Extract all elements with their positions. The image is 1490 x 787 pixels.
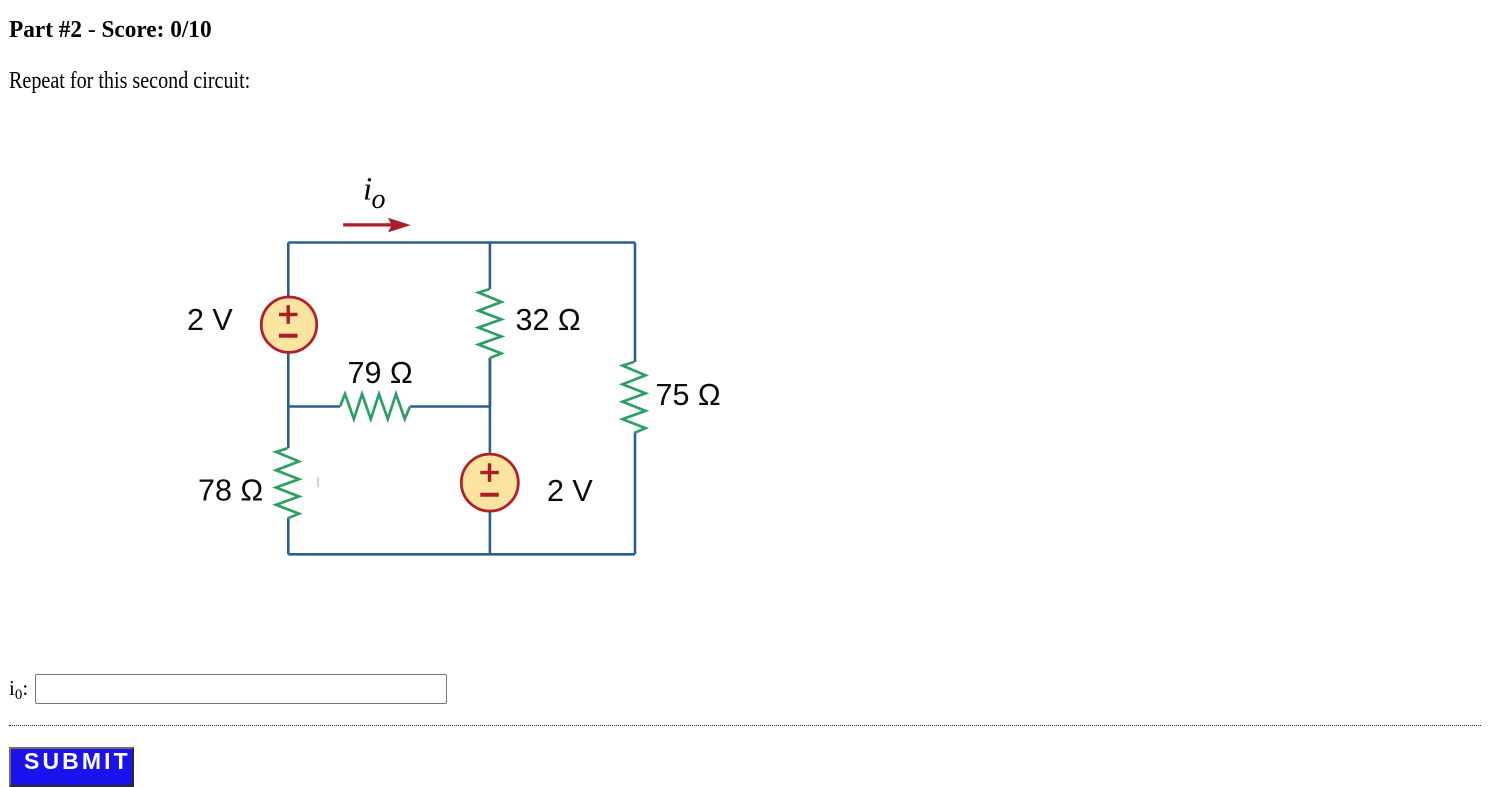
svg-text:2 V: 2 V <box>547 474 593 508</box>
svg-text:o: o <box>372 184 386 215</box>
svg-text:78 Ω: 78 Ω <box>198 474 263 508</box>
svg-text:79 Ω: 79 Ω <box>348 356 413 390</box>
svg-text:32 Ω: 32 Ω <box>516 303 581 337</box>
svg-text:2 V: 2 V <box>187 303 233 337</box>
svg-text:75 Ω: 75 Ω <box>656 378 721 412</box>
